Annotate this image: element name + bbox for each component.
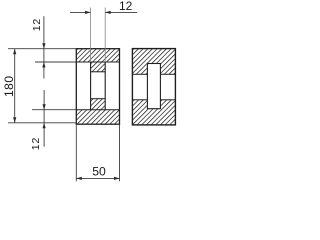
ext line y=62 (35, 61, 76, 63)
svg-text:12: 12 (31, 18, 43, 31)
arrow right tip (114, 177, 120, 180)
ext line y=109.7 (32, 109, 76, 111)
hatch lower side left (132, 100, 147, 125)
side step line upper left (132, 73, 147, 75)
ext vline hub left (90, 8, 92, 63)
hatch top flange band (76, 49, 119, 62)
right part outline (132, 49, 175, 125)
ext line top (y=48.7) (8, 48, 76, 50)
hub right edge (104, 62, 106, 110)
dim 12 top-left line (43, 16, 45, 78)
ext line bottom (y=122.8) (8, 122, 76, 124)
arrow left tip (76, 177, 82, 180)
left part outline (76, 49, 119, 125)
hub left edge (90, 62, 92, 110)
left tail (70, 11, 91, 13)
hatch upper hub block (91, 62, 106, 72)
svg-text:180: 180 (2, 75, 16, 97)
svg-text:50: 50 (92, 164, 106, 178)
dim line 50 (76, 177, 119, 179)
dim 12 bottom-left line (43, 90, 45, 147)
hatch bottom flange band (76, 110, 119, 125)
arrow down tip y122.8 (13, 117, 16, 123)
arrow up to y62 (42, 62, 45, 68)
ext vline right (119, 124, 121, 181)
dim 180 line (14, 49, 16, 123)
flange inner line bottom (76, 109, 119, 111)
arrow up to y122.8 (43, 123, 46, 129)
flange inner line top (76, 61, 119, 63)
hatch top band full width (132, 49, 175, 64)
svg-text:12: 12 (119, 0, 133, 13)
hub upper block bottom edge (91, 71, 106, 73)
hub lower block top edge (91, 98, 106, 100)
arrow down to y48.7 (42, 43, 45, 49)
hatch lower hub block (91, 99, 106, 110)
hatch upper side left (132, 64, 147, 75)
arrow up tip y48.7 (13, 49, 16, 55)
arrow down to y109.7 (43, 104, 46, 110)
side step line lower right (160, 99, 175, 101)
svg-text:12: 12 (30, 137, 42, 150)
hatch lower side right (160, 100, 175, 125)
hatch upper side right (160, 64, 175, 75)
side step line upper right (160, 73, 175, 75)
arrow left tip hub right (105, 11, 111, 14)
right tail (105, 11, 137, 13)
ext vline hub right (104, 8, 106, 63)
side step line lower left (132, 99, 147, 101)
hatch bottom band middle (147, 109, 160, 125)
arrow right tip hub left (85, 11, 91, 14)
slot opening (147, 64, 160, 109)
ext vline left (75, 124, 77, 181)
